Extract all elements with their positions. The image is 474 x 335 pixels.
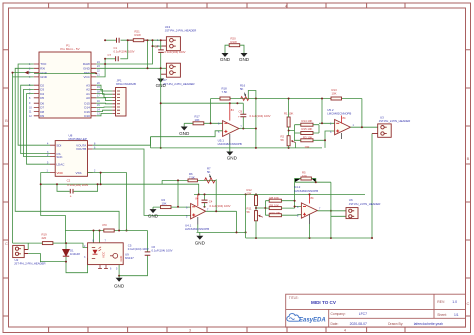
capacitor C4 [202, 194, 231, 208]
svg-text:Pro Micro - 5V: Pro Micro - 5V [60, 47, 79, 51]
wire U2 pin1 via R19 to D1 [13, 243, 88, 249]
svg-text:GND: GND [195, 240, 206, 245]
svg-text:R15 10K: R15 10K [302, 127, 313, 131]
gnd rail under U4.1 [197, 231, 246, 233]
svg-text:6N137: 6N137 [125, 256, 134, 260]
resistor R21 [128, 30, 148, 42]
svg-text:VOUTB: VOUTB [76, 147, 86, 151]
resistor R13 [331, 88, 342, 100]
resistor R5 [295, 171, 316, 183]
svg-text:GND: GND [114, 284, 125, 289]
svg-text:0.1uF(104) 100V: 0.1uF(104) 100V [128, 247, 149, 251]
wire supply net y=184.2 [41, 184, 199, 194]
svg-text:VCC: VCC [102, 251, 106, 258]
wire net top (RAW rail) [96, 40, 166, 77]
trimmer R7 5K [205, 166, 215, 183]
svg-text:B: B [5, 118, 8, 123]
wire long vertical from C8 net down to summing rail [160, 68, 162, 148]
svg-text:lafeeclochette.yeah: lafeeclochette.yeah [414, 322, 443, 326]
junction dots top net [104, 39, 162, 65]
op-amp U5.2 [327, 108, 354, 139]
connector U6 [346, 198, 380, 219]
svg-text:0.1uF(104) 100V: 0.1uF(104) 100V [250, 114, 271, 118]
svg-text:D10: D10 [84, 114, 90, 118]
connector JP1 [112, 79, 136, 117]
resistor R9 [265, 203, 294, 209]
wire R12/R11 node to summing [256, 201, 265, 216]
svg-text:GND: GND [179, 131, 190, 136]
wire VOUTA to U5.1 +input [93, 137, 151, 146]
wire D2 to CS [21, 85, 50, 153]
supply rail VDD to op-amps [194, 193, 365, 195]
op-amp U5.1 [218, 103, 243, 151]
svg-text:GND: GND [119, 256, 123, 262]
ground left of R20 [220, 53, 231, 62]
wire D1 bottom loop to opto pin3 [66, 258, 92, 272]
svg-text:B: B [467, 156, 470, 161]
svg-text:2020-08-07: 2020-08-07 [350, 322, 367, 326]
wire U5.2 output to U3 [351, 126, 378, 128]
capacitor C7 [108, 53, 119, 61]
wire U2 pin2 to D1 cathode [28, 254, 66, 262]
svg-text:LDAC: LDAC [56, 162, 65, 166]
svg-text:JST-PH_2-PIN_HEADER: JST-PH_2-PIN_HEADER [14, 262, 46, 266]
bottom gnd bus [246, 237, 372, 239]
svg-text:0.1uF(104) 100V: 0.1uF(104) 100V [67, 183, 88, 187]
wire VDD down to opto rail [41, 173, 66, 231]
feedback rail channel B [177, 180, 179, 206]
svg-text:R14 10K: R14 10K [302, 119, 313, 123]
svg-text:JST-PH_2-PIN_HEADER: JST-PH_2-PIN_HEADER [163, 82, 195, 86]
svg-text:10K: 10K [247, 192, 252, 196]
svg-text:GND: GND [148, 214, 159, 219]
svg-text:VSS: VSS [76, 171, 82, 175]
wire through chip GND to VCC [34, 72, 96, 74]
resistor R22 470 [102, 223, 114, 232]
svg-text:C4: C4 [209, 199, 213, 203]
resistor R20 [229, 37, 240, 47]
svg-text:1N4148: 1N4148 [70, 252, 80, 256]
connector U3 [372, 115, 410, 137]
ground under U4.1 [195, 232, 206, 245]
wire U3 pin2 down to gnd bus [371, 134, 373, 239]
resistor R10 [265, 211, 302, 217]
capacitor C5 label [128, 243, 149, 250]
svg-text:VCC: VCC [83, 75, 90, 79]
wire R20 leads [225, 45, 244, 53]
connector U13 [157, 25, 196, 51]
svg-text:SCK: SCK [56, 155, 62, 159]
svg-text:0.1uF(104) 100V: 0.1uF(104) 100V [152, 248, 173, 252]
svg-text:+: + [238, 115, 240, 119]
wire summing node to U4.2 - input [295, 182, 302, 208]
resistor R17 [184, 114, 222, 124]
svg-text:220: 220 [42, 236, 47, 240]
svg-text:GND: GND [227, 156, 238, 161]
junction dots left bus [12, 72, 14, 74]
trimmer R11 5K [247, 206, 263, 238]
svg-text:GND: GND [40, 75, 48, 79]
svg-text:LMC6482CNNOPB: LMC6482CNNOPB [218, 142, 242, 146]
left gnd bus vertical [245, 194, 247, 238]
ground left of R17 [179, 123, 190, 136]
resistor R1 [284, 98, 293, 136]
IC P1 Pro Micro 5V [29, 44, 100, 118]
summing rail channel A [151, 147, 323, 149]
opto supply rail [65, 231, 147, 244]
wire VOUTB to U4.1 +input [93, 149, 191, 215]
svg-text:C: C [467, 301, 470, 306]
connector U7 [161, 63, 195, 86]
ground under U7 [156, 79, 167, 89]
svg-text:C8: C8 [155, 45, 159, 49]
svg-text:TITLE:: TITLE: [289, 296, 299, 300]
resistor R12 [247, 188, 258, 211]
ground left of R4 [148, 207, 159, 219]
svg-text:0.1uF(104) 100V: 0.1uF(104) 100V [114, 49, 135, 53]
ground under opto [114, 276, 125, 289]
svg-text:0.1uF(104) 100V: 0.1uF(104) 100V [165, 50, 186, 54]
svg-text:+: + [70, 194, 72, 198]
wire R1/R2 node to summing resistors [289, 125, 295, 141]
svg-text:5K: 5K [240, 87, 244, 91]
wire VSS net [88, 173, 127, 231]
wire U5.1 output [239, 128, 256, 130]
svg-text:R1W: R1W [135, 33, 142, 37]
connector U2 [13, 245, 46, 265]
svg-text:5K: 5K [247, 210, 251, 214]
svg-text:9X9LONGPA2B: 9X9LONGPA2B [116, 82, 136, 86]
svg-text:7.5K: 7.5K [222, 90, 228, 94]
svg-text:VDD: VDD [57, 171, 64, 175]
svg-text:LMC6482CNNOPB: LMC6482CNNOPB [327, 112, 351, 116]
svg-text:470: 470 [102, 223, 107, 227]
capacitor C6 [119, 231, 173, 276]
svg-text:C7: C7 [108, 53, 112, 57]
resistor R14 [295, 119, 320, 126]
diode D1 1N4148 [63, 243, 80, 262]
svg-text:Date:: Date: [331, 322, 339, 326]
svg-text:EasyEDA: EasyEDA [299, 318, 326, 324]
wire GND pins down-left [13, 73, 34, 244]
resistor R19 [42, 233, 53, 245]
resistor R18 [220, 86, 230, 100]
feedback rail channel B2 [295, 182, 331, 238]
svg-text:C9: C9 [239, 109, 243, 113]
resistor R4 [153, 198, 191, 209]
svg-text:1.0: 1.0 [452, 300, 457, 304]
svg-text:C2: C2 [67, 179, 71, 183]
svg-text:D9: D9 [40, 114, 44, 118]
ground right of R20 [239, 53, 250, 62]
svg-text:JST-PH_2-PIN_HEADER: JST-PH_2-PIN_HEADER [165, 29, 197, 33]
svg-text:JST-PH_2-PIN_HEADER: JST-PH_2-PIN_HEADER [349, 202, 381, 206]
svg-text:1/1: 1/1 [454, 313, 459, 317]
IC U8 MCP4822 [47, 134, 97, 177]
svg-text:SDI: SDI [56, 143, 61, 147]
svg-text:10K: 10K [162, 202, 167, 206]
op-amp U4.2 [294, 185, 321, 238]
wire chip A3..D10 to JP1 [96, 85, 112, 116]
svg-text:REV:: REV: [437, 300, 445, 304]
svg-text:C: C [5, 241, 8, 246]
supply rail channel A [161, 102, 244, 104]
ground under U5.1 [226, 152, 237, 161]
IC U9 6N137 optocoupler [84, 240, 134, 276]
trimmer R16 5K [240, 84, 256, 101]
op-amp U4.1 [185, 194, 209, 232]
capacitor C9 [238, 103, 271, 128]
EasyEDA logo [287, 314, 326, 324]
svg-text:LFC7: LFC7 [359, 312, 367, 316]
wire U5.1 + input [151, 131, 223, 137]
svg-text:MIDI TO CV: MIDI TO CV [311, 300, 337, 305]
resistor R8 [265, 196, 294, 202]
svg-text:10K: 10K [305, 145, 310, 149]
resistor R15 [295, 127, 320, 135]
port arrow on GND net [25, 71, 29, 75]
svg-text:GND: GND [239, 57, 250, 62]
wire feedback drop to inverting input [210, 99, 212, 124]
resistor R6 [188, 172, 197, 182]
svg-text:LMC6482CNNOPB: LMC6482CNNOPB [294, 189, 318, 193]
svg-text:LMC6482CNNOPB: LMC6482CNNOPB [185, 227, 209, 231]
svg-text:10K: 10K [332, 92, 337, 96]
wire D4 to LDAC [27, 94, 51, 165]
wire D3 to SCK [24, 89, 50, 156]
svg-text:A0: A0 [86, 96, 90, 100]
svg-text:Sheet:: Sheet: [437, 313, 447, 317]
wire RXI return from opto [15, 68, 119, 230]
resistor R3 [295, 135, 326, 149]
feedback rail channel A [211, 98, 362, 100]
svg-text:0.1uF(104) 100V: 0.1uF(104) 100V [210, 204, 231, 208]
svg-text:Company:: Company: [331, 312, 346, 316]
wire to U5.2 inputs [319, 99, 335, 148]
wire TXO to SDI [18, 64, 50, 145]
svg-text:5K: 5K [281, 138, 285, 142]
svg-text:JST-PH_2-PIN_HEADER: JST-PH_2-PIN_HEADER [379, 119, 411, 123]
svg-text:5K: 5K [207, 170, 211, 174]
capacitor C1 [114, 38, 135, 54]
svg-text:GND: GND [220, 57, 231, 62]
capacitor C8 [155, 40, 186, 68]
capacitor C2 [56, 179, 99, 199]
svg-text:D5: D5 [40, 96, 44, 100]
wire U4.2 output to U6 [317, 210, 347, 212]
wire U4.1 output [206, 179, 237, 232]
svg-text:Drawn By:: Drawn By: [388, 322, 403, 326]
trimmer R2 5K [281, 134, 296, 148]
